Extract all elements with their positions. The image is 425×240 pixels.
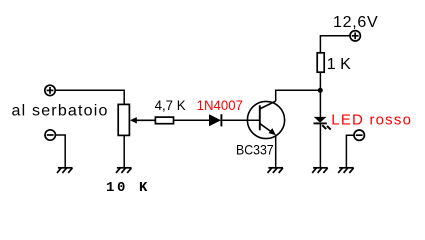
wire — [123, 135, 125, 167]
ground — [57, 168, 73, 173]
potentiometer R1 10 K — [118, 104, 155, 135]
terminal plus (al serbatoio) — [45, 85, 55, 95]
terminal minus (right) — [354, 130, 364, 140]
resistor R2 4,7 K — [155, 117, 173, 124]
svg-text:1 K: 1 K — [327, 56, 351, 73]
svg-text:LED rosso: LED rosso — [331, 112, 412, 129]
ground — [268, 168, 284, 173]
wire emitter — [275, 135, 277, 167]
wire — [320, 36, 350, 53]
wire — [222, 119, 259, 121]
svg-text:10 K: 10 K — [106, 180, 150, 196]
wire collector — [276, 90, 321, 101]
wire — [174, 119, 210, 121]
LED D2 rosso — [314, 117, 331, 130]
svg-text:12,6V: 12,6V — [333, 14, 378, 31]
wire — [319, 124, 321, 167]
svg-text:1N4007: 1N4007 — [197, 97, 243, 112]
node junction collector/led — [318, 88, 323, 93]
svg-text:BC337: BC337 — [236, 142, 274, 158]
diode D1 1N4007 — [209, 114, 221, 126]
transistor Q1 BC337 — [247, 101, 284, 139]
wire — [55, 135, 65, 167]
ground — [338, 168, 354, 173]
svg-text:4,7 K: 4,7 K — [155, 98, 186, 113]
terminal plus 12,6V — [350, 31, 360, 41]
terminal minus (al serbatoio) — [45, 130, 55, 140]
ground — [312, 168, 328, 173]
svg-text:al serbatoio: al serbatoio — [12, 103, 109, 120]
wire — [55, 90, 124, 104]
wire — [346, 135, 354, 167]
wire — [319, 72, 321, 117]
resistor R3 1 K — [317, 53, 324, 72]
ground — [116, 168, 132, 173]
